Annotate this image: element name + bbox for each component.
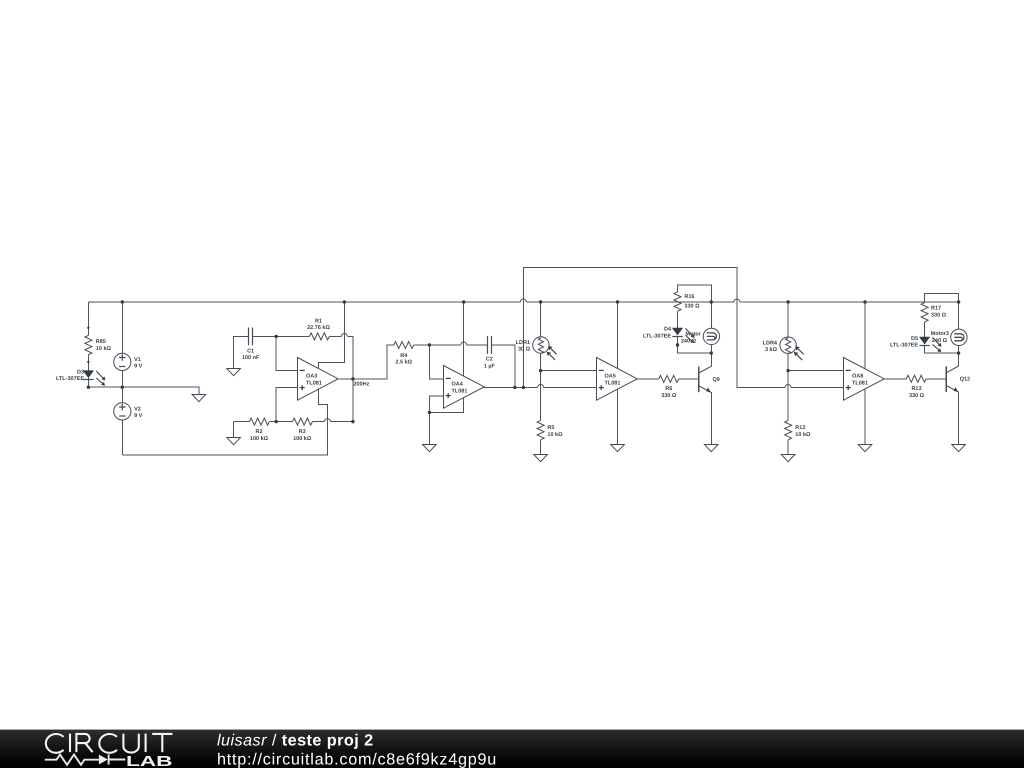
resistor R17 xyxy=(921,303,947,322)
junction xyxy=(957,300,960,303)
wire mid node to ground xyxy=(88,387,198,394)
resistor R13 xyxy=(906,375,926,399)
svg-text:OA8: OA8 xyxy=(852,374,863,380)
resistor R85 xyxy=(85,335,112,354)
wire motor to Q9 collector xyxy=(710,328,712,366)
voltage source V2 xyxy=(114,403,143,420)
svg-text:LTL-307EE: LTL-307EE xyxy=(890,343,918,349)
wire R2 leads xyxy=(234,422,293,438)
capacitor C2 xyxy=(484,336,496,369)
svg-text:V2: V2 xyxy=(134,406,141,412)
junction xyxy=(957,351,960,354)
wire hop xyxy=(325,419,331,422)
junction xyxy=(275,335,278,338)
wire R16 top bracket xyxy=(678,285,712,328)
wire hop xyxy=(520,299,526,302)
svg-text:Motor3: Motor3 xyxy=(931,331,949,337)
junction xyxy=(710,300,713,303)
resistor R6 xyxy=(659,375,679,398)
svg-text:LAB: LAB xyxy=(126,754,173,769)
wire OA5 output R6 Q9 base xyxy=(637,378,699,380)
svg-text:C2: C2 xyxy=(486,357,493,363)
ground xyxy=(704,445,718,452)
wire to OA3 inverting input xyxy=(276,336,297,370)
svg-text:Q9: Q9 xyxy=(713,377,720,383)
transistor Q12 xyxy=(946,366,970,392)
junction xyxy=(462,300,465,303)
svg-text:TL081: TL081 xyxy=(605,380,621,386)
junction xyxy=(121,300,124,303)
junction xyxy=(616,300,619,303)
wire rail through OA5 to ground xyxy=(617,302,619,444)
LED D3 xyxy=(56,369,105,385)
wire motor3 to Q12 collector xyxy=(958,329,960,366)
svg-text:10 kΩ: 10 kΩ xyxy=(96,346,112,352)
svg-text:330 Ω: 330 Ω xyxy=(931,313,947,319)
wire to OA8 inverting input xyxy=(788,370,844,372)
svg-text:R2: R2 xyxy=(255,429,262,435)
wire rail through OA8 to ground xyxy=(864,302,866,444)
svg-text:330 Ω: 330 Ω xyxy=(684,304,700,310)
svg-text:D5: D5 xyxy=(911,336,918,342)
op-amp OA3 xyxy=(298,358,339,401)
svg-text:R12: R12 xyxy=(795,425,805,431)
svg-text:100 nF: 100 nF xyxy=(242,355,260,361)
svg-text:R16: R16 xyxy=(684,294,694,300)
wire top rail through OA4 to feedback node xyxy=(429,302,463,413)
svg-text:30 Ω: 30 Ω xyxy=(518,347,531,353)
svg-text:9 V: 9 V xyxy=(134,413,143,419)
junction xyxy=(87,386,90,389)
svg-text:R3: R3 xyxy=(299,429,306,435)
voltage source V1 xyxy=(114,353,143,370)
transistor Q9 xyxy=(699,366,720,392)
wire R1 feedback to output xyxy=(329,336,353,379)
motor Motor xyxy=(681,328,720,345)
svg-text:R13: R13 xyxy=(911,386,921,392)
svg-text:LTL-307EE: LTL-307EE xyxy=(56,376,84,382)
svg-text:9 V: 9 V xyxy=(134,364,143,370)
svg-text:R17: R17 xyxy=(931,306,941,312)
ground xyxy=(423,445,437,452)
svg-text:LDR1: LDR1 xyxy=(516,340,530,346)
junction xyxy=(275,420,278,423)
junction xyxy=(351,377,354,380)
ground xyxy=(611,445,625,452)
resistor R2 xyxy=(249,418,269,442)
resistor R1 xyxy=(307,318,330,340)
wire OA4 output to OA5 noninverting input xyxy=(484,386,597,388)
wire C1 to R1 xyxy=(253,335,310,337)
svg-text:240 Ω: 240 Ω xyxy=(932,338,948,344)
photoresistor LDR1 xyxy=(516,337,557,360)
junction xyxy=(428,343,431,346)
svg-text:22.76 kΩ: 22.76 kΩ xyxy=(307,325,330,331)
junction xyxy=(863,300,866,303)
ground xyxy=(227,438,241,445)
svg-text:OA5: OA5 xyxy=(605,374,616,380)
wire OA4 noninverting to ground node xyxy=(429,396,443,444)
svg-text:R5: R5 xyxy=(547,425,554,431)
svg-text:10 kΩ: 10 kΩ xyxy=(547,432,563,438)
wire V2 return through OA3 xyxy=(122,302,344,455)
wire to OA5 inverting input xyxy=(541,370,597,372)
svg-text:C1: C1 xyxy=(247,348,254,354)
ground xyxy=(534,455,548,462)
svg-text:240 Ω: 240 Ω xyxy=(681,339,697,345)
svg-text:R6: R6 xyxy=(665,386,672,392)
wire hop xyxy=(734,299,740,302)
wire LDR4/R12 branch xyxy=(787,302,789,420)
wire R85/D3 branch xyxy=(87,302,89,387)
ground xyxy=(192,395,206,402)
junction xyxy=(121,386,124,389)
junction xyxy=(343,300,346,303)
wire C2 to OA4 output xyxy=(491,345,515,387)
op-amp OA8 xyxy=(844,358,885,401)
wire R5 to ground xyxy=(540,440,542,454)
wire C1 to ground xyxy=(234,336,249,368)
svg-text:D3: D3 xyxy=(77,369,84,375)
svg-text:LDR4: LDR4 xyxy=(763,340,778,346)
wire Q12 emitter to ground xyxy=(958,392,960,444)
resistor R16 xyxy=(674,292,700,311)
svg-text:3 kΩ: 3 kΩ xyxy=(765,347,778,353)
svg-text:330 Ω: 330 Ω xyxy=(909,393,925,399)
wire V1/V2 branch xyxy=(121,302,123,455)
svg-text:R4: R4 xyxy=(400,353,408,359)
wire R17 top bracket xyxy=(925,294,959,330)
svg-text:OA4: OA4 xyxy=(452,382,464,388)
svg-text:LTL-307EE: LTL-307EE xyxy=(643,334,671,340)
junction xyxy=(786,300,789,303)
wire hop xyxy=(538,384,544,387)
wire LDR1/R5 branch xyxy=(540,302,542,420)
wire hop xyxy=(785,385,791,388)
junction xyxy=(522,386,525,389)
ground xyxy=(227,369,241,376)
op-amp OA5 xyxy=(597,358,638,401)
svg-text:330 Ω: 330 Ω xyxy=(661,393,677,399)
svg-text:TL081: TL081 xyxy=(852,380,868,386)
junction xyxy=(539,300,542,303)
footer bar xyxy=(0,729,1024,768)
junction xyxy=(428,411,431,414)
ground xyxy=(858,445,872,452)
junction xyxy=(513,386,516,389)
svg-text:Q12: Q12 xyxy=(960,377,970,383)
resistor R12 xyxy=(785,420,811,439)
LED D5 xyxy=(890,336,942,352)
svg-text:R85: R85 xyxy=(96,339,106,345)
ground xyxy=(952,445,966,452)
svg-text:D4: D4 xyxy=(664,327,672,333)
junction xyxy=(539,369,542,372)
svg-text:luisasr / teste proj 2: luisasr / teste proj 2 xyxy=(217,732,374,750)
wire hop xyxy=(461,342,467,345)
wire OA4 output to OA8 noninverting input xyxy=(523,268,843,388)
wire D5 to motor3 bottom xyxy=(925,346,959,354)
svg-text:200Hz: 200Hz xyxy=(354,381,370,387)
wire R3 to output node xyxy=(313,379,353,422)
svg-text:Motor: Motor xyxy=(686,332,702,338)
wire to OA4 inverting input xyxy=(429,345,443,379)
wire R16 to D4 xyxy=(677,311,679,328)
ground xyxy=(781,455,795,462)
wire OA8 output R13 Q12 base xyxy=(884,378,946,380)
svg-text:TL081: TL081 xyxy=(306,380,322,386)
photoresistor LDR4 xyxy=(763,337,804,360)
capacitor C1 xyxy=(242,328,260,362)
wire to OA3 noninverting input xyxy=(276,388,297,422)
wire OA3 output to R4 xyxy=(339,345,394,379)
resistor R5 xyxy=(537,420,563,439)
svg-text:2.5 kΩ: 2.5 kΩ xyxy=(395,360,412,366)
svg-text:TL081: TL081 xyxy=(452,388,468,394)
svg-text:OA3: OA3 xyxy=(306,374,317,380)
wire D4 to motor bottom xyxy=(678,336,712,353)
wire R12 to ground xyxy=(787,440,789,454)
junction xyxy=(676,343,679,346)
svg-text:V1: V1 xyxy=(134,357,141,363)
terminal R85 pin 2 xyxy=(87,361,89,363)
CircuitLab logo wordmark CIRCUIT (drawn letters) xyxy=(46,734,173,753)
terminal R85 pin 1 xyxy=(87,327,89,329)
svg-text:http://circuitlab.com/c8e6f9kz: http://circuitlab.com/c8e6f9kz4gp9u xyxy=(217,751,497,769)
svg-text:100 kΩ: 100 kΩ xyxy=(250,436,269,442)
junction xyxy=(351,420,354,423)
op-amp OA4 xyxy=(444,366,485,409)
junction xyxy=(786,369,789,372)
LED D4 xyxy=(643,327,695,343)
svg-text:1 µF: 1 µF xyxy=(484,364,496,370)
logo diode symbol xyxy=(99,755,108,765)
wire Q9 emitter to ground xyxy=(710,392,712,444)
motor Motor3 xyxy=(931,329,967,345)
resistor R4 xyxy=(394,342,414,366)
wire hop xyxy=(341,333,347,336)
wire R4 node to C2 xyxy=(414,344,488,346)
wire top rail xyxy=(88,301,958,303)
svg-text:100 kΩ: 100 kΩ xyxy=(293,436,312,442)
resistor R3 xyxy=(293,418,313,442)
svg-text:R1: R1 xyxy=(315,318,322,324)
svg-text:10 kΩ: 10 kΩ xyxy=(795,432,811,438)
wire R17 to D5 xyxy=(924,322,926,337)
junction xyxy=(710,351,713,354)
logo resistor symbol xyxy=(45,755,99,765)
